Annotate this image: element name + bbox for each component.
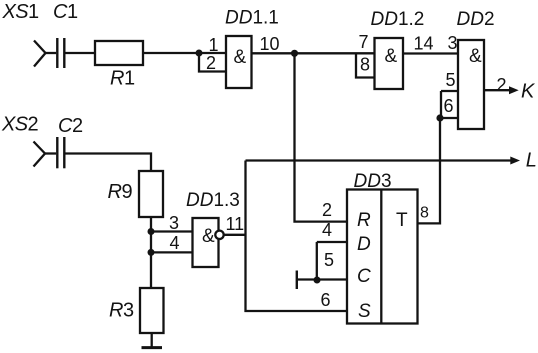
svg-text:4: 4 (322, 220, 332, 240)
node junction R9/R3 pin3 (148, 228, 155, 235)
svg-text:XS2: XS2 (1, 114, 38, 136)
gate DD1.2 (375, 38, 404, 89)
terminal stub at pin C (297, 278, 317, 280)
svg-text:T: T (396, 210, 408, 231)
gate DD1.1 (226, 36, 252, 88)
wire pin 11 output (224, 234, 247, 236)
svg-text:2: 2 (206, 53, 216, 73)
wire output L (246, 159, 512, 161)
svg-text:R3: R3 (109, 300, 134, 322)
wire (45, 152, 56, 154)
resistor R9 (139, 171, 163, 217)
svg-text:R: R (357, 210, 371, 231)
pin 2 notch of DD1.1 (199, 53, 226, 72)
wire pin 4 of DD1.3 (151, 251, 193, 253)
node junction DD2 pin6 (436, 114, 443, 121)
svg-text:C: C (357, 266, 371, 287)
svg-text:S: S (358, 301, 371, 322)
svg-text:DD1.2: DD1.2 (371, 9, 425, 30)
pin 6 notch of DD2 (441, 91, 458, 118)
node B junction at DD1.1 output (291, 50, 298, 57)
svg-text:R1: R1 (110, 68, 135, 90)
svg-text:5: 5 (324, 250, 334, 270)
svg-text:1: 1 (209, 35, 219, 55)
wire (46, 52, 57, 54)
svg-text:8: 8 (360, 55, 370, 75)
svg-text:3: 3 (169, 213, 179, 233)
connector XS1 (34, 41, 46, 67)
wire (143, 52, 226, 54)
svg-text:&: & (469, 46, 482, 67)
wire node to DD3 pin 8 (418, 118, 441, 223)
gate DD1.3 (193, 218, 219, 267)
svg-text:6: 6 (444, 96, 454, 116)
wire (150, 217, 152, 288)
wire (66, 52, 96, 54)
gate DD2 (458, 40, 484, 129)
node A junction at R1/DD1.1 input (196, 50, 203, 57)
arrowhead K (509, 86, 519, 94)
pin 5 notch of DD3 (317, 242, 347, 280)
arrowhead L (510, 157, 520, 165)
svg-text:L: L (526, 150, 537, 172)
svg-text:3: 3 (448, 33, 458, 53)
svg-text:&: & (385, 46, 398, 67)
node junction terminal C (314, 277, 321, 284)
capacitor C1 (57, 38, 64, 68)
svg-text:10: 10 (260, 34, 280, 54)
svg-text:2: 2 (497, 75, 507, 95)
node junction R9/R3 pin4 (148, 249, 155, 256)
svg-text:&: & (202, 226, 215, 247)
svg-text:D: D (357, 234, 371, 255)
svg-text:4: 4 (170, 233, 180, 253)
svg-text:K: K (521, 81, 536, 103)
resistor R1 (95, 41, 143, 65)
svg-text:DD2: DD2 (457, 9, 495, 30)
svg-text:DD1.1: DD1.1 (225, 8, 279, 29)
wire (66, 154, 152, 172)
svg-text:&: & (234, 47, 247, 68)
svg-text:8: 8 (420, 205, 429, 222)
pin 8 notch of DD1.2 (356, 53, 375, 77)
svg-text:R9: R9 (108, 181, 133, 203)
svg-text:C1: C1 (53, 1, 78, 23)
ground (151, 333, 153, 347)
svg-text:DD3: DD3 (354, 171, 392, 192)
svg-text:11: 11 (226, 214, 245, 234)
svg-text:XS1: XS1 (2, 1, 39, 23)
flip-flop DD3 (347, 190, 418, 324)
svg-text:2: 2 (322, 200, 332, 220)
wire (403, 52, 458, 54)
svg-text:14: 14 (414, 34, 434, 54)
wire pin 3 of DD1.3 (151, 230, 193, 232)
wire output K (484, 89, 510, 91)
wire node to DD3 pin 6 (246, 161, 348, 312)
wire pin 4 of DD3 (317, 241, 347, 243)
svg-text:6: 6 (321, 290, 331, 310)
wire (252, 52, 375, 54)
svg-text:C2: C2 (58, 115, 83, 137)
capacitor C2 (57, 137, 64, 168)
svg-text:5: 5 (446, 70, 456, 90)
wire node to DD3 pin 2 (295, 53, 348, 221)
svg-text:7: 7 (359, 32, 369, 52)
svg-text:DD1.3: DD1.3 (186, 190, 240, 211)
inversion bubble DD1.3 (215, 231, 223, 239)
wire pin 5 of DD2 (441, 90, 458, 92)
resistor R3 (140, 288, 164, 333)
connector XS2 (34, 142, 46, 167)
